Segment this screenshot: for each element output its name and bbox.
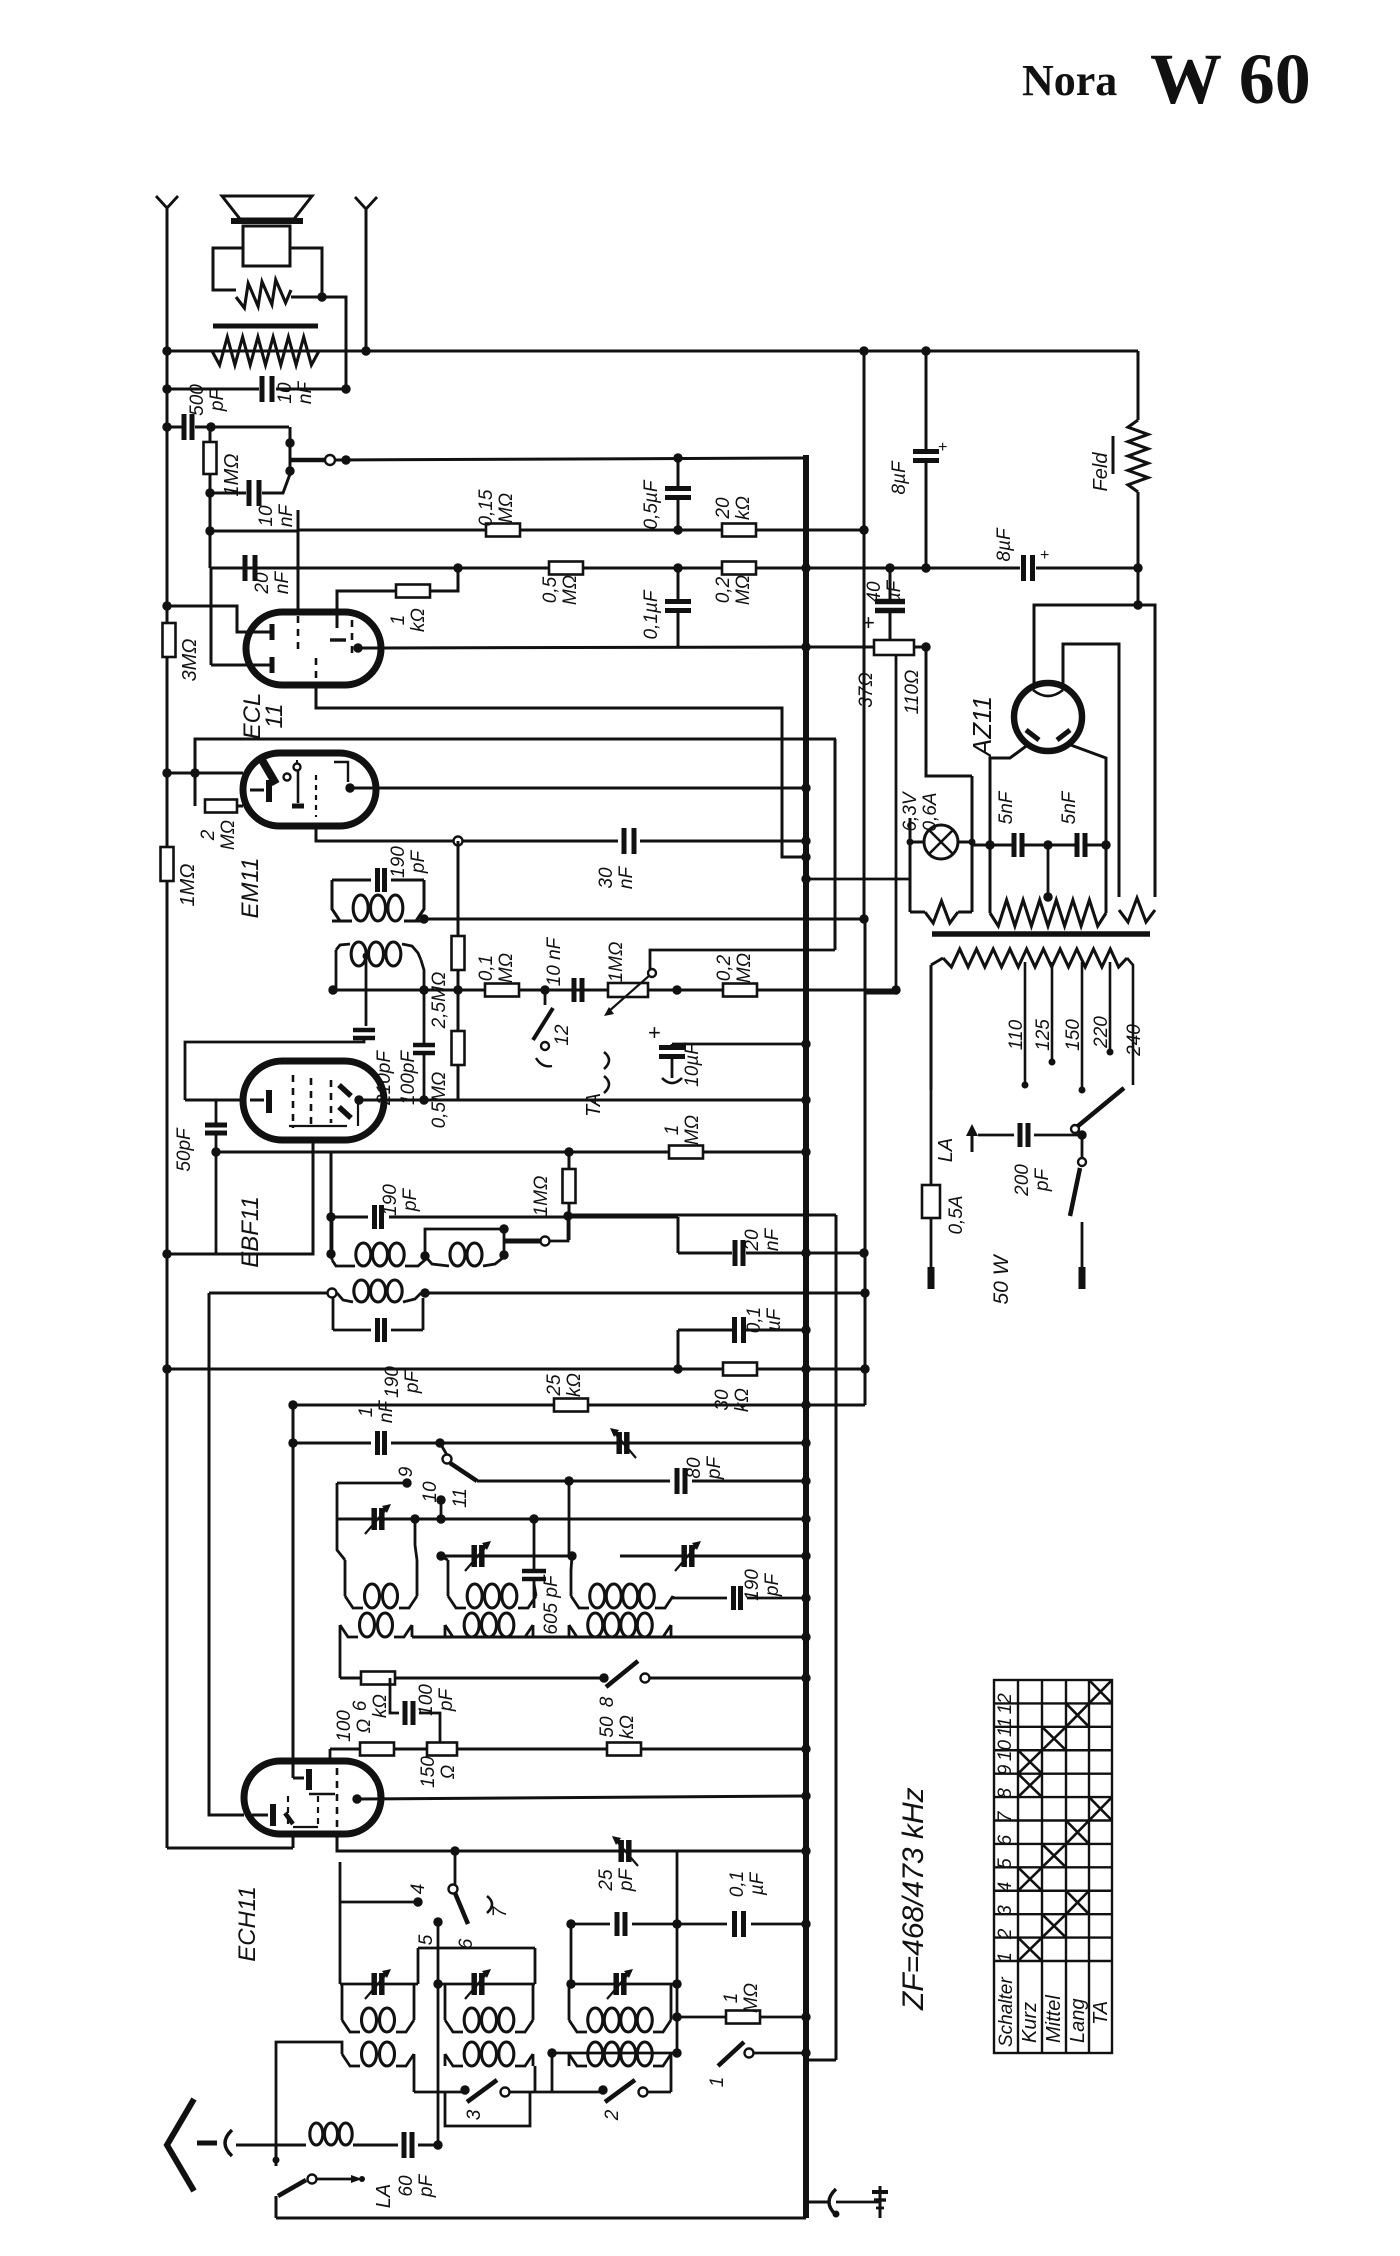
IF T3 coil	[356, 1243, 371, 1266]
svg-text:kΩ: kΩ	[370, 1694, 391, 1718]
svg-text:100pF: 100pF	[398, 1050, 419, 1105]
transformer primary	[931, 958, 943, 965]
wire tank1 verticals	[344, 1560, 347, 1596]
svg-text:MΩ: MΩ	[741, 1983, 762, 2013]
resistor 150ohm	[427, 1743, 457, 1756]
svg-text:1: 1	[721, 1993, 742, 2004]
wire x331 vert	[330, 1152, 333, 1254]
wire T2b left down	[335, 950, 338, 990]
svg-text:MΩ: MΩ	[733, 575, 754, 605]
wire rail y1519	[337, 1518, 806, 1521]
wire ECL11 anode pin	[353, 643, 362, 652]
svg-text:pF: pF	[704, 1456, 725, 1481]
wire rail y568 right	[806, 567, 1020, 570]
svg-text:µF: µF	[884, 579, 905, 604]
svg-text:11: 11	[995, 1717, 1016, 1737]
osc coil row1 c	[590, 1584, 605, 1608]
fuse 0,5A	[922, 1185, 940, 1218]
wire antenna vert link	[275, 2145, 278, 2166]
resistor 100ohm	[360, 1743, 394, 1756]
svg-text:1: 1	[995, 1952, 1016, 1963]
svg-text:200: 200	[1012, 1164, 1033, 1197]
wire y2053 link	[552, 2052, 677, 2055]
wire LA line y1135	[978, 1134, 1014, 1137]
resistor 0,15M	[486, 524, 520, 537]
arrester LA	[971, 1130, 974, 1152]
svg-text:190: 190	[388, 846, 409, 878]
svg-text:0,5A: 0,5A	[946, 1195, 967, 1234]
wire T4 frame	[328, 1289, 337, 1298]
wire AZ11 filament loop inner	[1063, 644, 1119, 897]
wire rail y1369	[167, 1368, 865, 1371]
svg-text:100: 100	[416, 1684, 437, 1716]
capacitor 50pF	[205, 1123, 227, 1128]
lamp leads	[910, 841, 924, 844]
tap 110	[1024, 962, 1027, 1085]
switch 3	[460, 2085, 469, 2094]
wire y1948 link	[418, 1947, 535, 1950]
svg-text:7: 7	[490, 1905, 511, 1917]
tube EM11	[243, 753, 376, 826]
wire ECL cathode link	[210, 568, 213, 665]
capacitor 190pF T2a	[332, 879, 371, 882]
svg-text:37Ω: 37Ω	[856, 672, 877, 708]
svg-text:12: 12	[995, 1693, 1016, 1715]
svg-text:10: 10	[420, 1481, 441, 1503]
wire sw2 left	[535, 2091, 603, 2094]
wire x677 vert	[676, 1851, 679, 2053]
svg-text:pF: pF	[207, 388, 228, 413]
ECH11 internals	[292, 1761, 295, 1778]
tank row3 rail a	[340, 1983, 418, 1986]
wire row4a right	[413, 2054, 416, 2066]
ant coil row4 a	[362, 2042, 377, 2066]
svg-text:pF: pF	[616, 1868, 637, 1893]
switch frame T3	[425, 1229, 504, 1256]
IF transformer coil b	[351, 942, 366, 966]
antenna coil LA	[310, 2123, 323, 2145]
switch table	[994, 1680, 1112, 2053]
svg-text:ZF=468/473 kHz: ZF=468/473 kHz	[897, 1787, 930, 2011]
wire x836-vert lower	[835, 1215, 838, 2060]
svg-text:nF: nF	[295, 381, 316, 405]
osc coil row1 b	[467, 1584, 482, 1608]
wire row2a frame	[339, 1625, 342, 1678]
capacitor 30nF	[458, 840, 618, 843]
capacitor 200pF	[1018, 1123, 1023, 1147]
svg-text:8µF: 8µF	[889, 460, 910, 495]
wire T3 right	[405, 1256, 425, 1266]
switch terminal bar	[1079, 1267, 1086, 1289]
wire rail y1556	[441, 1555, 572, 1558]
svg-text:nF: nF	[276, 504, 297, 528]
electrolytic 10uF	[659, 1045, 685, 1050]
svg-text:0,1µF: 0,1µF	[641, 589, 662, 639]
wire 210pF bottom	[185, 1038, 364, 1100]
cap200 right	[1034, 1134, 1078, 1137]
svg-text:5: 5	[416, 1934, 437, 1945]
wire rail y1405 25k	[293, 1404, 806, 1407]
svg-text:Ω: Ω	[354, 1719, 375, 1733]
svg-text:50pF: 50pF	[174, 1127, 195, 1172]
svg-text:pF: pF	[400, 1188, 421, 1213]
wire EM11 grid y773	[167, 772, 243, 775]
ground symbol	[836, 2201, 880, 2204]
svg-text:5nF: 5nF	[1059, 790, 1080, 824]
wire speaker to pot	[322, 297, 346, 389]
IF T4 coil	[354, 1280, 369, 1302]
speaker	[222, 196, 312, 219]
svg-text:10µF: 10µF	[682, 1042, 703, 1087]
potentiometer wiper	[289, 458, 326, 463]
wire x678 vert	[677, 1217, 680, 1253]
svg-text:1MΩ: 1MΩ	[177, 864, 199, 907]
IF transformer coil a	[353, 895, 368, 921]
svg-text:80: 80	[684, 1457, 705, 1479]
wire B+ to rectifier	[926, 647, 972, 776]
svg-text:LA: LA	[935, 1138, 957, 1162]
capacitor 100pF osc	[390, 1678, 399, 1713]
resistor 0,2M	[722, 562, 756, 575]
wire 5 vert long	[437, 1922, 440, 2145]
svg-text:Schalter: Schalter	[996, 1977, 1017, 2047]
svg-text:MΩ: MΩ	[560, 575, 581, 605]
svg-text:5nF: 5nF	[996, 790, 1017, 824]
capacitor 40uF	[875, 599, 905, 605]
svg-text:40: 40	[864, 581, 885, 603]
capacitor 60pF	[402, 2132, 407, 2158]
svg-text:20: 20	[252, 572, 273, 595]
resistor 1M left bus	[161, 847, 174, 881]
capacitor 10nF grid	[247, 480, 252, 506]
svg-text:kΩ: kΩ	[617, 1715, 638, 1739]
EBF11 internals	[250, 1099, 264, 1102]
wire top rail y347	[167, 350, 1138, 353]
contact 5	[433, 1917, 442, 1926]
AZ11 internals	[1033, 690, 1063, 696]
resistor 3M	[163, 623, 176, 657]
svg-text:pF: pF	[762, 1573, 783, 1598]
capacitor 10nF agc	[572, 978, 577, 1002]
svg-text:+: +	[648, 1020, 661, 1045]
wire right fork vertical	[365, 209, 368, 351]
wire rail y1443 1nF	[293, 1442, 371, 1445]
wire y919 rail	[424, 918, 864, 921]
trimmer tank3	[681, 1545, 687, 1567]
fuse terminal bar	[928, 1267, 935, 1289]
svg-text:10: 10	[995, 1740, 1016, 1762]
svg-text:2: 2	[602, 2109, 623, 2121]
svg-text:0,5µF: 0,5µF	[641, 479, 662, 529]
contact 4	[413, 1897, 422, 1906]
trimmer rail1443	[616, 1432, 622, 1454]
ant coil row2 a	[360, 1613, 375, 1637]
trimmer tank2	[471, 1545, 477, 1567]
capacitor 10nF	[260, 376, 265, 402]
svg-text:1: 1	[662, 1125, 683, 1136]
svg-text:AZ11: AZ11	[967, 696, 997, 758]
wire x209 vert EBF-ECH	[209, 1293, 244, 1815]
svg-text:125: 125	[1033, 1019, 1054, 1051]
svg-text:240: 240	[1124, 1024, 1145, 1057]
wire tank a left vert	[339, 1930, 342, 1984]
ant coil row4 c	[588, 2042, 603, 2066]
wire rail y568	[211, 567, 806, 570]
wire T3 left	[331, 1216, 334, 1260]
capacitor 20nF	[243, 555, 248, 581]
svg-text:1MΩ: 1MΩ	[221, 454, 243, 497]
resistor 20k	[722, 524, 756, 537]
wire HT centertap	[1047, 845, 1050, 897]
svg-text:3MΩ: 3MΩ	[179, 639, 201, 682]
trimmer padder y1851	[618, 1840, 624, 1862]
resistor 0,2M agc	[723, 984, 757, 997]
switch lever T3	[504, 1239, 540, 1244]
svg-text:25: 25	[544, 1374, 565, 1397]
wire x569 vert	[568, 1481, 571, 1556]
svg-text:30: 30	[712, 1389, 733, 1411]
wire 25pF y1924	[571, 1923, 610, 1926]
switch 1	[718, 2042, 744, 2066]
tank row3 rail b	[438, 1983, 535, 1986]
svg-text:LA: LA	[373, 2184, 395, 2208]
wire antenna y2145	[276, 2144, 306, 2147]
ant coil row2 c	[588, 1613, 603, 1637]
wire rail y1481 80pF	[477, 1480, 670, 1483]
capacitor 0,5uF	[665, 486, 691, 491]
TA terminals	[604, 1052, 609, 1069]
capacitor 0,1uF	[665, 599, 691, 604]
switch 2	[598, 2085, 607, 2094]
svg-text:MΩ: MΩ	[496, 493, 517, 523]
svg-text:190: 190	[382, 1366, 403, 1398]
svg-text:nF: nF	[376, 1400, 397, 1424]
tank row3 rail c	[571, 1983, 677, 1986]
svg-text:2: 2	[198, 829, 219, 841]
svg-text:100: 100	[334, 1710, 355, 1742]
wire 110ohm tap down	[895, 655, 898, 990]
tap arrow T2b	[363, 953, 370, 960]
transformer fil winding AZ	[1119, 898, 1155, 922]
wire grid link ECL	[167, 606, 262, 632]
svg-text:kΩ: kΩ	[408, 608, 429, 632]
switch 6 lever	[449, 1885, 458, 1894]
tap 240	[1127, 958, 1133, 1085]
svg-text:nF: nF	[272, 571, 293, 595]
svg-text:220: 220	[1091, 1016, 1112, 1049]
selector to switch	[1081, 1133, 1084, 1157]
trimmer tank1	[371, 1508, 377, 1530]
wire EM11 top rail y739	[195, 739, 836, 806]
lamp 6,3V 0,6A	[924, 825, 958, 859]
svg-text:0,1: 0,1	[744, 1307, 765, 1333]
svg-text:+: +	[862, 610, 875, 635]
heater winding	[910, 911, 925, 914]
svg-text:0,6A: 0,6A	[920, 792, 941, 831]
transformer core bar	[213, 324, 318, 329]
svg-text:9: 9	[396, 1466, 417, 1477]
wire heater link	[864, 992, 895, 995]
wire 1M bottom y493	[209, 476, 212, 493]
wire rail y530	[297, 510, 300, 531]
svg-text:6: 6	[350, 1700, 371, 1711]
wire EM11 pin right y788	[345, 783, 354, 792]
wire y1924 right to bus	[677, 1923, 727, 1926]
resistor 1M vert	[563, 1169, 576, 1203]
svg-text:20: 20	[713, 497, 734, 520]
main chassis bus	[803, 455, 809, 2202]
tap 125	[1051, 962, 1054, 1062]
svg-text:50 W: 50 W	[990, 1253, 1013, 1304]
svg-text:2: 2	[995, 1928, 1016, 1940]
tube ECL11	[246, 612, 381, 685]
svg-text:nF: nF	[762, 1228, 783, 1252]
mains switch	[1078, 1158, 1086, 1166]
osc coil row3 a	[362, 2008, 377, 2032]
svg-text:190: 190	[380, 1184, 401, 1216]
ant coil row4 b	[464, 2042, 479, 2066]
svg-text:10: 10	[256, 505, 277, 527]
svg-text:kΩ: kΩ	[733, 496, 754, 520]
junction EM cathode	[454, 837, 463, 846]
svg-text:TA: TA	[583, 1093, 605, 1117]
resistor 30k	[723, 1363, 757, 1376]
svg-text:0,1: 0,1	[476, 955, 497, 981]
wire EBF cathode to bus-left	[167, 1140, 313, 1254]
EM11 internals	[262, 760, 276, 784]
svg-text:0,1: 0,1	[727, 1871, 748, 1897]
IF coupling coil small	[450, 1243, 465, 1266]
osc coil row1 a	[365, 1584, 380, 1608]
contact 10	[436, 1495, 445, 1504]
wire x836-vert top	[834, 739, 837, 950]
resistor 2,5M	[452, 936, 465, 970]
wire to 60pF	[353, 2144, 398, 2147]
wire x865 vert	[864, 919, 867, 1405]
transformer HT winding	[990, 900, 1106, 926]
svg-text:60: 60	[396, 2175, 417, 2197]
svg-text:20: 20	[742, 1229, 763, 1252]
tap 150	[1081, 962, 1084, 1090]
switch LA	[278, 2180, 306, 2196]
antenna fork left	[156, 196, 178, 208]
capacitor 5nF a	[1012, 833, 1017, 857]
svg-text:6: 6	[995, 1834, 1016, 1845]
resistor 2M	[205, 800, 237, 813]
resistor 1M h	[669, 1146, 703, 1159]
heater terminals	[909, 818, 912, 912]
wire EBF pin right y1100	[354, 1095, 363, 1104]
svg-text:30: 30	[596, 867, 617, 889]
wire down from 1M bottom	[209, 493, 212, 568]
svg-text:8: 8	[597, 1696, 618, 1707]
wire y389 with 10nF	[167, 388, 259, 391]
svg-text:8: 8	[995, 1788, 1016, 1799]
svg-text:25: 25	[596, 1869, 617, 1892]
wire rail y1678 switch8	[340, 1677, 604, 1680]
tube EBF11	[243, 1061, 384, 1140]
wire EBF grid y1100	[185, 1099, 243, 1102]
wire x571 vert	[570, 1924, 573, 1984]
contact 7	[487, 1896, 492, 1913]
tap 220	[1109, 962, 1112, 1052]
resistor 0,1M	[485, 984, 519, 997]
5nF rail y846	[972, 844, 990, 847]
svg-text:EM11: EM11	[237, 858, 264, 919]
osc coil row3 c	[588, 2008, 603, 2032]
svg-text:µF: µF	[764, 1307, 785, 1332]
wire row4a left down	[276, 2042, 342, 2145]
primary left to fuse	[930, 965, 933, 1090]
resistor 0,5M vert	[452, 1031, 465, 1065]
wire ECH11 pin right	[352, 1794, 361, 1803]
svg-text:7: 7	[995, 1810, 1016, 1822]
svg-text:pF: pF	[408, 850, 429, 875]
svg-text:pF: pF	[436, 1688, 457, 1713]
capacitor 210pF	[353, 1028, 375, 1033]
resistor 50k	[607, 1743, 641, 1756]
wire 1k to rail	[429, 568, 458, 591]
wire 20nF y1253	[678, 1252, 732, 1255]
svg-text:150: 150	[418, 1756, 439, 1788]
svg-text:pF: pF	[416, 2174, 437, 2199]
switch 11	[443, 1455, 452, 1464]
resistor 1M pot element	[204, 442, 217, 474]
bottom chassis wire	[276, 2217, 806, 2220]
ground terminal arc	[806, 2201, 828, 2204]
wire EM11 cathode y841	[316, 826, 458, 841]
output transformer secondary loop	[213, 248, 243, 290]
voltage selector lever	[1078, 1088, 1124, 1126]
svg-text:MΩ: MΩ	[734, 953, 755, 983]
svg-text:500: 500	[187, 384, 208, 416]
wire y427 500pF	[167, 426, 182, 429]
svg-text:9: 9	[995, 1764, 1016, 1775]
svg-text:1: 1	[388, 615, 409, 626]
resistor 37/110ohm	[874, 640, 914, 655]
svg-text:Feld: Feld	[1090, 452, 1112, 492]
wire rail2 start	[210, 530, 298, 533]
svg-text:µF: µF	[747, 1871, 768, 1896]
antenna terminal	[197, 2141, 217, 2146]
capacitor 190pF 2	[372, 1205, 377, 1229]
svg-text:0,5: 0,5	[540, 576, 561, 603]
ECL11 internals	[270, 624, 275, 640]
svg-text:kΩ: kΩ	[732, 1388, 753, 1412]
svg-text:3: 3	[464, 2109, 485, 2120]
svg-text:MΩ: MΩ	[218, 820, 239, 850]
wire 0,1uF y1330	[678, 1329, 732, 1332]
wire ECL11 cathode	[315, 658, 318, 684]
wire 190pF osc to bus	[673, 1596, 727, 1598]
wire rail y990	[333, 989, 896, 992]
svg-text:11: 11	[261, 704, 288, 729]
wire LA bottom	[275, 2196, 278, 2218]
tube ECH11	[244, 1761, 381, 1834]
svg-text:1MΩ: 1MΩ	[606, 942, 627, 983]
osc coil row3 b	[464, 2008, 479, 2032]
svg-text:4: 4	[408, 1884, 429, 1895]
resistor 0,5M	[549, 562, 583, 575]
switch 12	[540, 985, 549, 994]
svg-text:8µF: 8µF	[994, 527, 1015, 562]
wire x293 vert	[292, 1405, 295, 1761]
wire heater feed y879	[806, 878, 910, 881]
svg-text:12: 12	[552, 1024, 573, 1046]
capacitor 5nF b	[1075, 833, 1080, 857]
electrolytic 8uF second	[1021, 555, 1026, 581]
svg-text:Lang: Lang	[1067, 1999, 1089, 2044]
